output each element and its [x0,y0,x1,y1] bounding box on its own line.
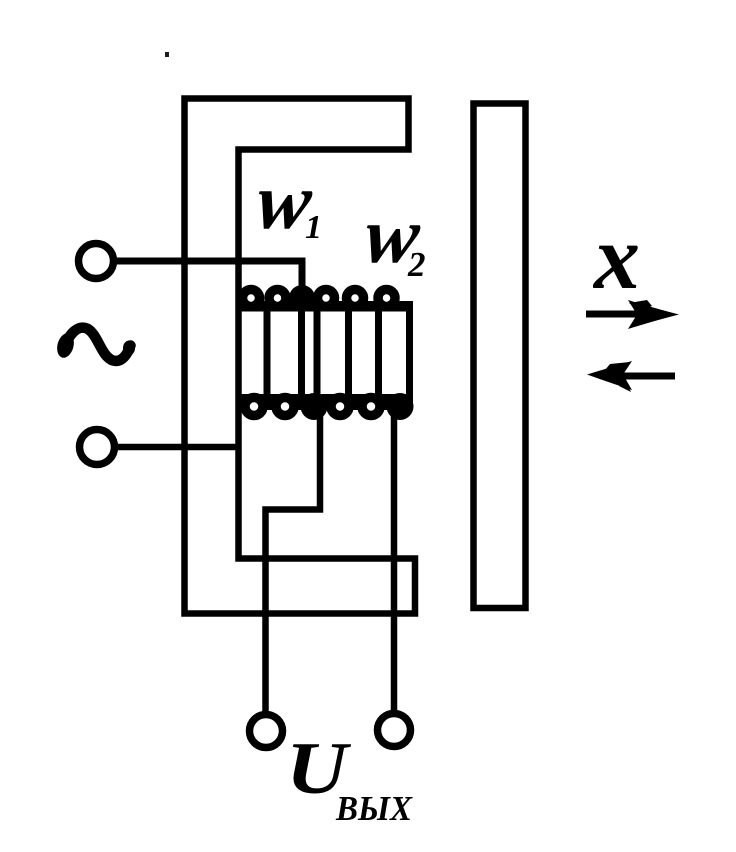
svg-text:1: 1 [305,209,322,246]
svg-text:x: x [592,206,640,308]
svg-text:2: 2 [407,245,426,284]
svg-text:ВЫХ: ВЫХ [335,790,413,828]
